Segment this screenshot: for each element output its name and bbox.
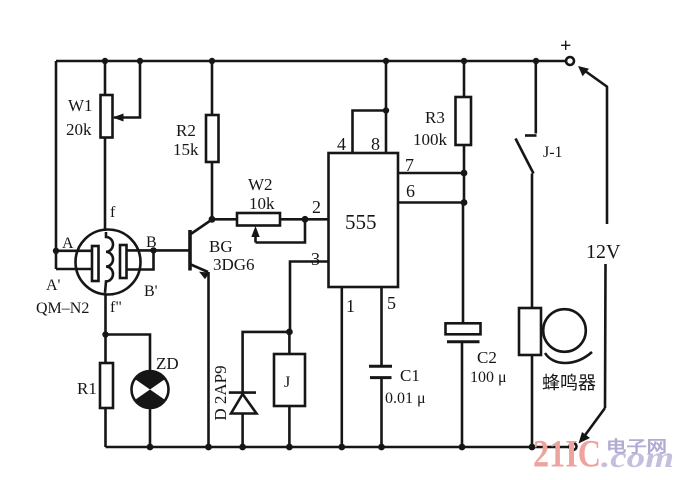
svg-text:2: 2 — [312, 197, 321, 217]
svg-text:7: 7 — [405, 155, 414, 175]
svg-text:R1: R1 — [77, 379, 97, 398]
svg-text:5: 5 — [387, 293, 396, 313]
node: 555 pin8 top junction — [383, 58, 389, 64]
svg-text:f": f" — [110, 299, 122, 316]
node: pin7 junction — [461, 170, 468, 177]
svg-text:C1: C1 — [400, 366, 420, 385]
svg-text:8: 8 — [371, 134, 380, 154]
sensor pin A' lead — [56, 268, 92, 271]
svg-text:C2: C2 — [477, 348, 497, 367]
sensor pin A lead — [56, 250, 92, 253]
buzzer — [519, 308, 592, 447]
svg-text:6: 6 — [406, 181, 415, 201]
sensor heater coil — [105, 232, 113, 293]
svg-text:100k: 100k — [413, 130, 448, 149]
svg-text:电子网: 电子网 — [606, 437, 667, 456]
svg-text:BG: BG — [209, 237, 233, 256]
svg-text:R2: R2 — [176, 121, 196, 140]
wire: top power rail — [56, 60, 566, 63]
relay J — [274, 262, 329, 448]
lamp ZD — [106, 335, 169, 448]
sensor left electrode plate — [92, 246, 99, 281]
svg-text:100 μ: 100 μ — [470, 369, 507, 386]
node: B junction — [150, 247, 156, 253]
wire: left rail from top rail to sensor A/A' — [55, 61, 58, 269]
switch J-1 — [516, 61, 537, 308]
resistor R2 — [206, 61, 219, 219]
svg-text:1: 1 — [346, 296, 355, 316]
sensor pin B' lead — [127, 250, 154, 269]
wire: bottom ground rail — [106, 446, 570, 449]
watermark 21IC logo — [533, 433, 674, 476]
capacitor C2 — [446, 323, 481, 447]
node: ZD bottom junction — [147, 444, 154, 451]
svg-text:蜂鸣器: 蜂鸣器 — [542, 373, 596, 393]
capacitor C1 — [369, 366, 392, 447]
node: R3 top junction — [461, 58, 467, 64]
svg-text:15k: 15k — [173, 140, 199, 159]
wire: pin 4 to pin 8 link — [353, 111, 387, 154]
node: buzzer bottom junction — [529, 444, 536, 451]
node: J-1 top junction — [533, 58, 539, 64]
resistor R3 — [456, 61, 472, 203]
svg-text:QM–N2: QM–N2 — [36, 300, 89, 317]
svg-text:3: 3 — [311, 249, 320, 269]
node: C1 bottom junction — [378, 444, 385, 451]
wire: 12V battery lead top with arrow — [578, 66, 608, 224]
node: R2 / base / W2 junction — [209, 216, 216, 223]
svg-text:555: 555 — [345, 210, 377, 234]
svg-text:21IC: 21IC — [533, 433, 601, 476]
transistor Q BG 3DG6 — [154, 220, 213, 280]
node: A junction on left rail — [53, 248, 59, 254]
node: pin3 / diode / relay junction — [286, 329, 293, 336]
svg-text:10k: 10k — [249, 194, 275, 213]
node: pin6 junction — [461, 199, 468, 206]
diode D 2AP9 — [229, 332, 290, 447]
wire: pin 1 to bottom rail — [340, 287, 343, 447]
node: W1 top junction — [102, 58, 108, 64]
node: pin4/pin8 junction — [383, 107, 389, 113]
wire: 12V battery lead bottom with arrow — [579, 264, 606, 444]
svg-text:12V: 12V — [586, 241, 621, 263]
potentiometer W2 — [212, 213, 329, 243]
svg-text:A': A' — [46, 277, 61, 294]
wire: pin 7 to R3 bottom — [398, 172, 464, 175]
sensor right electrode plate — [120, 245, 127, 278]
wire: pin 5 to C1 — [380, 287, 383, 366]
wire: pin 8 to top rail — [385, 61, 388, 153]
svg-text:4: 4 — [337, 134, 346, 154]
wire: pin6 node down to C2 — [462, 203, 465, 324]
node: diode bottom junction — [239, 444, 246, 451]
node: W2 wiper / pin2 junction — [302, 216, 309, 223]
sensor pin B lead — [127, 249, 154, 252]
wire: f" lead down — [104, 295, 107, 335]
node: W1 wiper junction on top rail — [137, 58, 143, 64]
svg-text:D 2AP9: D 2AP9 — [211, 365, 230, 420]
node: C2 bottom junction — [459, 444, 466, 451]
node: relay bottom junction — [286, 444, 293, 451]
svg-text:20k: 20k — [66, 120, 92, 139]
node: pin1 bottom junction — [338, 444, 345, 451]
op-amp/timer U 555 — [329, 153, 399, 287]
svg-text:R3: R3 — [425, 108, 445, 127]
svg-text:W2: W2 — [248, 175, 273, 194]
wire: pin 6 junction wire — [398, 201, 464, 204]
terminal: + positive battery terminal — [566, 57, 574, 65]
wire: emitter down to bottom rail — [207, 272, 210, 447]
svg-text:J-1: J-1 — [543, 144, 563, 161]
svg-text:ZD: ZD — [156, 354, 179, 373]
svg-text:B: B — [146, 234, 157, 251]
svg-text:B': B' — [144, 283, 158, 300]
svg-text:A: A — [62, 235, 74, 252]
svg-text:f: f — [110, 204, 116, 221]
resistor R1 — [100, 335, 113, 448]
node: f"/R1/ZD junction — [102, 331, 108, 337]
svg-text:W1: W1 — [68, 96, 93, 115]
potentiometer W1 — [101, 61, 141, 231]
terminal: - negative battery terminal — [570, 443, 577, 450]
svg-text:J: J — [284, 374, 290, 391]
gas sensor QM-N2 — [53, 230, 157, 335]
node: emitter bottom junction — [205, 444, 212, 451]
svg-text:0.01 μ: 0.01 μ — [385, 390, 426, 407]
svg-text:+: + — [560, 35, 571, 57]
svg-text:3DG6: 3DG6 — [213, 255, 255, 274]
node: R2 top junction — [209, 58, 215, 64]
